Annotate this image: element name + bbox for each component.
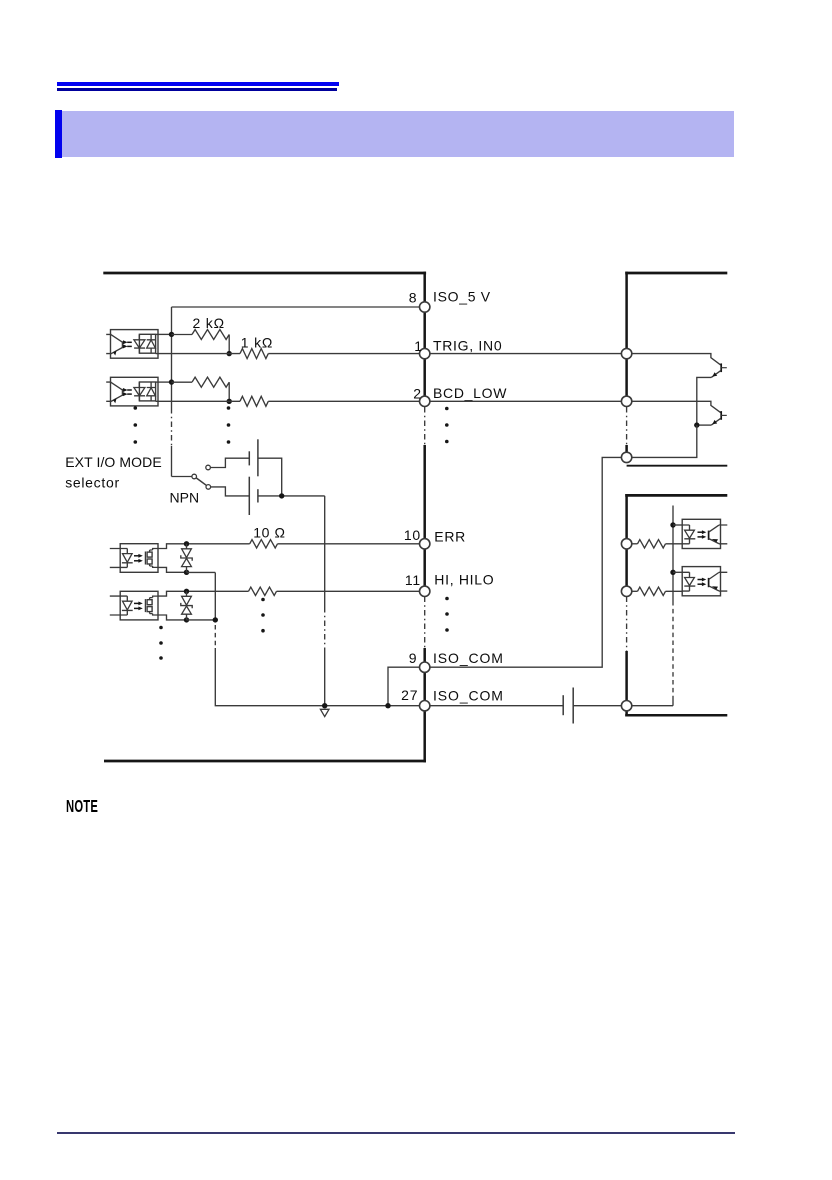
- wire: external device lower box bottom: [625, 714, 727, 717]
- wire: R2 to pin 1: [268, 353, 419, 355]
- optocoupler U2 (BCD input photocoupler): [111, 377, 159, 406]
- node: junction at ground: [322, 703, 327, 708]
- svg-text:2: 2: [413, 386, 421, 402]
- wire: external pull-up rail dashed: [672, 601, 674, 698]
- wire: connector pin bus (thick vertical): [423, 272, 426, 763]
- wire: R5 to pin 10: [278, 543, 420, 545]
- svg-text:9: 9: [409, 650, 417, 666]
- wire: external device lower box top: [625, 494, 727, 497]
- node: U6 anode junction: [670, 570, 675, 575]
- svg-text:10 Ω: 10 Ω: [253, 524, 285, 540]
- header rule thick blue: [57, 82, 339, 86]
- battery B3 minus plate: [562, 695, 564, 715]
- label: NOTE: [66, 796, 98, 817]
- battery B1 minus plate: [248, 451, 250, 465]
- svg-text:BCD_LOW: BCD_LOW: [433, 385, 507, 401]
- pin: external HI output: [621, 586, 631, 596]
- resistor R4 1 kOhm: [240, 396, 268, 406]
- wire: external device left edge (upper): [625, 272, 628, 462]
- wire: BCD to Q2 collector: [632, 401, 721, 412]
- wire: battery to external common: [573, 705, 621, 707]
- wire: U6 anode stub: [673, 571, 682, 573]
- wire: U2 cathode to R4: [156, 400, 240, 402]
- wire: U3 output top to ERR line: [158, 544, 250, 549]
- svg-text:10: 10: [404, 527, 421, 543]
- wire: connector bus dashed sections: [424, 407, 426, 648]
- wire: U2 anode to ISO_5V rail: [156, 381, 172, 383]
- wire: pin 27 to external battery: [430, 705, 563, 707]
- wire: U4 output top to HI line: [158, 591, 249, 596]
- svg-text:selector: selector: [65, 474, 120, 490]
- resistor R1 2 kOhm: [192, 330, 229, 340]
- wire: B1 to common node: [258, 458, 282, 496]
- svg-text:NPN: NPN: [170, 489, 200, 505]
- wire: D1 return stub: [187, 571, 216, 573]
- optocoupler U4 (HI,HILO output photocoupler): [120, 591, 158, 620]
- wire: external rail to common: [632, 698, 673, 706]
- wire: external pull-up rail: [672, 506, 674, 602]
- node: ellipsis below R4: [227, 406, 231, 410]
- diode D2 (HI,HILO clamp TVS): [184, 589, 189, 594]
- switch SW1 throw NPN contact: [206, 485, 211, 490]
- svg-text:2 kΩ: 2 kΩ: [193, 315, 225, 331]
- node: junction R1/R2: [227, 351, 232, 356]
- pin: external common (upper): [621, 452, 631, 462]
- wire: Q1 emitter to common: [697, 377, 712, 425]
- wire: BCD line to external device: [430, 400, 622, 402]
- svg-text:ERR: ERR: [434, 528, 466, 544]
- ground (isolated common arrow): [320, 709, 329, 716]
- resistor R3 2 kOhm: [192, 377, 229, 387]
- node: U5 anode junction: [670, 522, 675, 527]
- optocoupler U3 (ERR output photocoupler): [120, 544, 158, 573]
- wire: R7 to U5 cathode: [666, 543, 683, 545]
- wire: output return dashed: [214, 625, 216, 648]
- wire: external device left edge dashed (lower): [626, 597, 628, 652]
- wire: Q2 emitter to junction: [697, 424, 712, 426]
- node: Q1/Q2 emitter junction: [694, 422, 699, 427]
- wire: PNP throw to battery B1: [210, 458, 249, 467]
- transistor Q2 (external NPN driver): [720, 411, 722, 420]
- switch SW1 throw PNP contact: [206, 465, 211, 470]
- wire: external common to pin 9: [430, 457, 621, 667]
- wire: U3 output bottom to return: [158, 567, 187, 572]
- svg-text:8: 8: [409, 289, 417, 305]
- pin 8 (ISO_5 V): [420, 302, 430, 312]
- wire: TRIG to Q1 collector: [632, 354, 721, 365]
- wire: pin 9 to common rail: [388, 667, 420, 706]
- optocoupler U5 (external ERR monitor): [682, 519, 720, 548]
- pin 27 (ISO_COM): [420, 701, 430, 711]
- wire: U1 anode to ISO_5V rail: [156, 333, 172, 335]
- pin: external common (lower): [621, 701, 631, 711]
- pin: external TRIG input: [621, 348, 631, 358]
- resistor R6 (HI,HILO series): [249, 587, 277, 595]
- battery B2 minus plate: [257, 489, 259, 502]
- svg-text:27: 27: [401, 687, 418, 703]
- svg-text:EXT I/O MODE: EXT I/O MODE: [65, 454, 162, 470]
- wire: R1 lead: [172, 334, 193, 336]
- pin: external ERR output: [621, 539, 631, 549]
- wire: common mode line dashed: [324, 607, 326, 648]
- pin 1 (TRIG, IN0): [420, 348, 430, 358]
- wire: emitter bus to common pin: [632, 425, 697, 457]
- svg-text:TRIG, IN0: TRIG, IN0: [433, 337, 502, 353]
- pin 11 (HI, HILO): [420, 586, 430, 596]
- node: battery common junction: [279, 493, 284, 498]
- wire: HI to R8: [632, 590, 638, 592]
- wire: U5 anode stub: [673, 524, 682, 526]
- wire: common mode line down: [324, 496, 326, 706]
- node: junction R3/R4: [227, 399, 232, 404]
- svg-text:1: 1: [414, 338, 422, 354]
- pin 10 (ERR): [420, 539, 430, 549]
- wire: R1 to TRIG line: [228, 335, 230, 354]
- wire: output return line: [215, 573, 419, 706]
- pin: external BCD input: [621, 396, 631, 406]
- battery B1 plus plate: [257, 439, 259, 476]
- wire: D2 return to common: [187, 619, 216, 621]
- wire: external device left edge (lower): [625, 494, 628, 716]
- pin 9 (ISO_COM): [420, 662, 430, 672]
- resistor R8 (external HI load): [638, 587, 666, 595]
- transistor Q1 (external NPN driver): [720, 363, 722, 372]
- wire: TRIG line to external device: [430, 353, 622, 355]
- wire: ISO_5V rail from pin 8 to selector: [172, 307, 420, 477]
- section banner blue tab: [55, 110, 62, 158]
- switch SW1 lever: [196, 478, 206, 485]
- pin 2 (BCD_LOW): [420, 396, 430, 406]
- footer rule navy: [57, 1132, 735, 1134]
- svg-text:ISO_5 V: ISO_5 V: [433, 289, 491, 305]
- resistor R5 10 Ohm: [250, 540, 278, 548]
- node: junction pin9/pin27 rail: [385, 703, 390, 708]
- section banner lavender bar: [62, 111, 734, 157]
- wire: R6 to pin 11: [277, 590, 420, 592]
- wire: U4 output bottom to return: [158, 615, 187, 620]
- wire: ISO_5V rail dashed section: [171, 408, 173, 446]
- wire: external device left edge dashed (upper): [626, 407, 628, 445]
- diode D1 (ERR clamp TVS): [184, 541, 189, 546]
- node: junction ISO_5V/R1: [169, 332, 174, 337]
- wire: external device upper box bottom: [627, 465, 728, 467]
- node: ellipsis below R6: [261, 598, 265, 602]
- wire: instrument enclosure bottom line: [104, 760, 426, 763]
- wire: B2 output: [258, 495, 325, 497]
- wire: NPN throw to battery B2: [211, 487, 250, 496]
- wire: instrument enclosure top line: [103, 272, 426, 275]
- node: junction ISO_5V/R3: [169, 379, 174, 384]
- resistor R7 (external ERR load): [638, 540, 666, 548]
- battery B3 plus plate: [572, 688, 574, 724]
- wire: R3 to BCD line: [228, 382, 230, 401]
- svg-text:11: 11: [405, 572, 421, 588]
- node: ellipsis right of bus lower: [445, 597, 449, 601]
- node: ellipsis right of bus: [445, 407, 449, 411]
- header rule thin navy: [57, 88, 337, 90]
- svg-text:ISO_COM: ISO_COM: [433, 687, 504, 703]
- svg-text:1 kΩ: 1 kΩ: [241, 335, 273, 351]
- resistor R2 1 kOhm: [240, 349, 268, 359]
- svg-text:ISO_COM: ISO_COM: [433, 650, 504, 666]
- node: ellipsis below U2: [134, 406, 138, 410]
- optocoupler U6 (external HI monitor): [682, 567, 720, 596]
- optocoupler U1 (TRIG input photocoupler): [111, 330, 159, 359]
- wire: R4 to pin 2: [268, 400, 419, 402]
- wire: selector pole feed: [172, 476, 193, 478]
- wire: R3 lead: [172, 381, 193, 383]
- wire: ERR to R7: [632, 543, 638, 545]
- wire: R8 to U6 cathode: [666, 590, 683, 592]
- svg-text:HI, HILO: HI, HILO: [434, 572, 494, 588]
- node: ellipsis below U4: [159, 626, 163, 630]
- wire: U1 cathode to R2: [156, 353, 240, 355]
- switch SW1 pole contact: [192, 474, 197, 479]
- node: return junction: [213, 617, 218, 622]
- battery B2 plus plate: [248, 477, 250, 515]
- wire: external device top line: [625, 272, 727, 275]
